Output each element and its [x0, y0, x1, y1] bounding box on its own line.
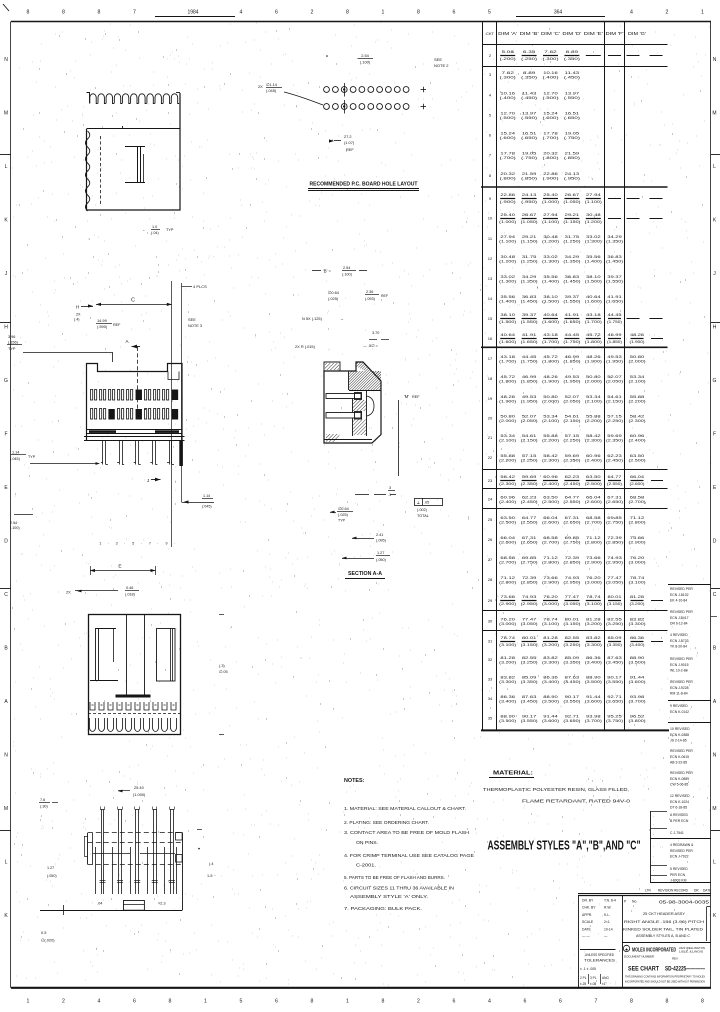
svg-text:(1.450): (1.450): [521, 300, 538, 304]
svg-text:(2.600): (2.600): [499, 541, 516, 545]
svg-text:(1.000): (1.000): [133, 792, 146, 797]
svg-text:63.50: 63.50: [630, 454, 645, 458]
svg-text:6: 6: [275, 999, 278, 1005]
svg-text:A REVISED: A REVISED: [670, 813, 688, 817]
svg-text:DIM 'F': DIM 'F': [606, 31, 624, 36]
svg-text:29.21: 29.21: [522, 235, 537, 239]
svg-text:86.36: 86.36: [543, 676, 558, 680]
hole span dimension: [329, 139, 334, 142]
svg-text:3: 3: [116, 542, 118, 546]
svg-text:4 REDRAWN &: 4 REDRAWN &: [670, 843, 694, 847]
svg-text:(.800): (.800): [543, 156, 559, 160]
svg-text:69.85: 69.85: [565, 536, 580, 540]
svg-text:12: 12: [488, 256, 493, 261]
svg-text:(1.850): (1.850): [607, 340, 622, 344]
svg-text:DIM 'E': DIM 'E': [584, 31, 603, 36]
svg-text:±.08: ±.08: [590, 982, 596, 986]
top view body band: [88, 832, 182, 834]
svg-text:(3.450): (3.450): [563, 680, 580, 684]
svg-text:(2.500): (2.500): [585, 482, 602, 486]
svg-text:(1.800): (1.800): [499, 380, 516, 384]
svg-text:(2.050): (2.050): [521, 419, 538, 423]
svg-text:(1.350): (1.350): [606, 240, 623, 244]
svg-text:(1.300): (1.300): [585, 240, 602, 244]
svg-text:(1.900): (1.900): [499, 400, 516, 404]
svg-text:N 5X (.125): N 5X (.125): [302, 316, 323, 321]
svg-text:78.74: 78.74: [630, 576, 645, 580]
svg-text:14: 14: [488, 296, 493, 301]
svg-text:68.58: 68.58: [500, 556, 515, 560]
svg-text:86.36: 86.36: [586, 656, 601, 660]
top view polarizing rib: [124, 901, 145, 911]
svg-text:21.59: 21.59: [565, 152, 580, 156]
svg-text:1.14: 1.14: [203, 494, 210, 498]
svg-text:INCORPORATED AND SHOULD NOT BE: INCORPORATED AND SHOULD NOT BE USED WITH…: [625, 980, 705, 984]
svg-text:58.42: 58.42: [500, 475, 515, 479]
svg-text:(.600): (.600): [543, 116, 559, 120]
svg-text:16.51: 16.51: [522, 132, 537, 136]
svg-text:(1.000): (1.000): [542, 200, 559, 204]
svg-text:38.10: 38.10: [543, 295, 558, 299]
svg-text:(2.450): (2.450): [563, 482, 580, 486]
rear view tail row 2: [89, 718, 176, 732]
svg-text:55.88: 55.88: [630, 395, 645, 399]
svg-text:TYP: TYP: [338, 519, 346, 523]
svg-text:(2.250): (2.250): [521, 459, 538, 463]
svg-text:73.66: 73.66: [586, 556, 601, 560]
svg-text:20.32: 20.32: [543, 152, 558, 156]
svg-text:(1.800): (1.800): [542, 360, 559, 364]
dim J arrow: [155, 478, 161, 482]
svg-text:(.300): (.300): [500, 76, 516, 80]
svg-text:26: 26: [488, 537, 493, 542]
svg-text:88.90: 88.90: [500, 715, 515, 719]
svg-text:ECN J-8417: ECN J-8417: [670, 616, 689, 620]
svg-text:(2.750): (2.750): [521, 561, 538, 565]
svg-text:THERMOPLASTIC POLYESTER RESIN,: THERMOPLASTIC POLYESTER RESIN, GLASS FIL…: [483, 787, 629, 792]
section hatch lower: [352, 420, 366, 436]
svg-text:30.48: 30.48: [543, 235, 558, 239]
svg-text:87.63: 87.63: [565, 676, 580, 680]
svg-text:(.350): (.350): [564, 57, 580, 61]
svg-text:·: ·: [653, 878, 654, 882]
svg-text:1: 1: [382, 10, 385, 16]
svg-text:(.100): (.100): [360, 60, 371, 65]
svg-text:(2.950): (2.950): [521, 602, 538, 606]
svg-text:ASSEMBLY STYLE 'A' ONLY.: ASSEMBLY STYLE 'A' ONLY.: [350, 894, 428, 899]
svg-text:87.63: 87.63: [522, 695, 537, 699]
svg-text:6: 6: [559, 999, 562, 1005]
svg-text:35.56: 35.56: [543, 275, 558, 279]
svg-text:3: 3: [389, 486, 391, 490]
svg-text:62.23: 62.23: [565, 475, 580, 479]
svg-text:(1.050): (1.050): [521, 220, 538, 224]
svg-text:(2.850): (2.850): [563, 561, 580, 565]
svg-text:(.450): (.450): [521, 96, 537, 100]
hole row end ticks: [421, 89, 427, 91]
svg-text:±.25: ±.25: [580, 982, 586, 986]
svg-text:5: 5: [488, 10, 491, 16]
top view right marks: [197, 829, 202, 831]
svg-text:(3.300): (3.300): [542, 661, 559, 665]
svg-text:DATE: DATE: [582, 927, 592, 931]
svg-text:(1.350): (1.350): [563, 260, 580, 264]
svg-text:36.83: 36.83: [565, 275, 580, 279]
svg-text:NOTE 3: NOTE 3: [188, 323, 202, 328]
svg-text:49.53: 49.53: [607, 355, 622, 359]
svg-text:44.45: 44.45: [565, 333, 580, 337]
svg-text:73.66: 73.66: [500, 595, 515, 599]
svg-text:67.31: 67.31: [522, 536, 537, 540]
svg-text:57.15: 57.15: [522, 454, 537, 458]
svg-text:60.96: 60.96: [630, 434, 645, 438]
svg-text:(.950): (.950): [521, 200, 537, 204]
svg-text:68.58: 68.58: [543, 536, 558, 540]
svg-text:(2.150): (2.150): [563, 419, 580, 423]
svg-text:(.025): (.025): [338, 513, 349, 517]
svg-text:90.17: 90.17: [607, 676, 622, 680]
sheet border frame: [11, 21, 711, 23]
svg-text:(3.050): (3.050): [521, 622, 538, 626]
svg-text:L: L: [713, 164, 716, 170]
svg-text:(.550): (.550): [564, 96, 580, 100]
rear view body: [89, 615, 181, 735]
svg-text:2X: 2X: [66, 590, 71, 595]
svg-text:(2.250): (2.250): [563, 439, 580, 443]
svg-text:AB 3-22-85: AB 3-22-85: [670, 760, 687, 764]
top view pin base ticks: [100, 880, 106, 882]
svg-text:17.78: 17.78: [543, 132, 558, 136]
svg-text:(3.100): (3.100): [585, 602, 602, 606]
svg-text:D: D: [4, 539, 8, 545]
svg-text:71.12: 71.12: [586, 536, 601, 540]
svg-text:(.3): (.3): [219, 664, 225, 668]
svg-text:(1.400): (1.400): [585, 260, 602, 264]
svg-text:M: M: [712, 111, 716, 117]
svg-text:G: G: [713, 378, 717, 384]
svg-text:(2.600): (2.600): [585, 500, 602, 504]
svg-text:(.200): (.200): [500, 57, 516, 61]
svg-text:1: 1: [701, 10, 704, 16]
svg-text:5 REVISED: 5 REVISED: [670, 867, 688, 871]
svg-text:34.29: 34.29: [607, 235, 622, 239]
svg-text:(3.700): (3.700): [629, 700, 646, 704]
svg-text:(1.500): (1.500): [585, 280, 602, 284]
svg-text:(2.800): (2.800): [585, 541, 602, 545]
svg-text:SD-42225————: SD-42225————: [665, 967, 705, 973]
svg-text:27.2: 27.2: [344, 134, 352, 139]
svg-text:(1.350): (1.350): [521, 280, 538, 284]
svg-text:25 CKT HEADER ASSY: 25 CKT HEADER ASSY: [643, 911, 685, 916]
svg-text:(1.650): (1.650): [521, 340, 538, 344]
svg-text:SCALE: SCALE: [582, 920, 594, 924]
svg-text:(.30): (.30): [40, 805, 49, 809]
svg-text:48.26: 48.26: [543, 375, 558, 379]
svg-text:8: 8: [311, 999, 314, 1005]
svg-text:(1.650): (1.650): [606, 300, 623, 304]
svg-text:6: 6: [275, 10, 278, 16]
svg-text:7. PACKAGING: BULK PACK.: 7. PACKAGING: BULK PACK.: [344, 906, 422, 911]
svg-text:7.6: 7.6: [40, 798, 45, 802]
svg-text:(1.400): (1.400): [542, 280, 559, 284]
svg-text:85.09: 85.09: [608, 636, 622, 640]
svg-text:4: 4: [488, 999, 491, 1005]
svg-text:91.44: 91.44: [630, 676, 645, 680]
svg-text:05-98-3004-0035: 05-98-3004-0035: [659, 900, 710, 905]
svg-text:96.52: 96.52: [630, 715, 645, 719]
svg-text:E: E: [118, 564, 121, 570]
svg-text:(3.000): (3.000): [629, 561, 646, 565]
svg-text:(.550): (.550): [521, 116, 537, 120]
svg-text:ECN J-9228: ECN J-9228: [670, 686, 689, 690]
svg-text:— —: — —: [582, 935, 590, 939]
svg-text:10: 10: [488, 216, 493, 221]
svg-text:(1.600): (1.600): [499, 340, 516, 344]
svg-text:REVISED PER: REVISED PER: [670, 657, 693, 661]
svg-text:·: ·: [108, 542, 109, 546]
svg-text:.05: .05: [424, 501, 429, 505]
front view right base tab: [155, 430, 179, 433]
svg-text:L: L: [5, 860, 8, 866]
svg-text:1: 1: [346, 999, 349, 1005]
svg-text:0.46: 0.46: [126, 586, 133, 590]
svg-text:DIM 'D': DIM 'D': [562, 31, 581, 36]
svg-text:8: 8: [630, 999, 633, 1005]
svg-text:NOTES:: NOTES:: [344, 778, 365, 784]
svg-text:60.96: 60.96: [500, 496, 515, 500]
svg-text:77.47: 77.47: [522, 618, 537, 622]
section tolerance frame: [415, 499, 443, 506]
svg-text:12.70: 12.70: [500, 112, 515, 116]
svg-text:·: ·: [653, 833, 654, 837]
svg-text:8: 8: [346, 10, 349, 16]
svg-text:(3.600): (3.600): [629, 680, 646, 684]
svg-text:59.69: 59.69: [565, 454, 580, 458]
svg-text:·: ·: [653, 823, 654, 827]
svg-text:58.42: 58.42: [586, 434, 601, 438]
svg-text:69.85: 69.85: [607, 516, 622, 520]
svg-text:L: L: [713, 860, 716, 866]
svg-text:(2.950): (2.950): [606, 561, 623, 565]
svg-text:74.93: 74.93: [565, 576, 580, 580]
svg-text:·: ·: [174, 542, 175, 546]
rear view dim E: [90, 570, 156, 572]
svg-text:(2.150): (2.150): [606, 400, 623, 404]
svg-text:(2.700): (2.700): [542, 541, 559, 545]
svg-text:(3.000): (3.000): [585, 581, 602, 585]
svg-text:48.26: 48.26: [630, 333, 644, 337]
svg-text:CKT: CKT: [486, 31, 495, 36]
top view pitch dim: [118, 790, 123, 793]
svg-text:(.600): (.600): [500, 136, 516, 140]
svg-text:⟂: ⟂: [417, 500, 420, 505]
svg-text:62.23: 62.23: [607, 454, 622, 458]
svg-text:(2.550): (2.550): [563, 500, 580, 504]
svg-text:REVISION RECORD: REVISION RECORD: [658, 889, 689, 893]
svg-text:26.67: 26.67: [522, 213, 537, 217]
svg-text:(1.200): (1.200): [585, 220, 602, 224]
svg-text:78.74: 78.74: [543, 618, 558, 622]
svg-text:(.700): (.700): [500, 156, 516, 160]
svg-text:72.39: 72.39: [607, 536, 622, 540]
svg-text:82.55: 82.55: [565, 636, 580, 640]
svg-text:25.40: 25.40: [500, 213, 515, 217]
svg-text:(.650): (.650): [521, 136, 537, 140]
svg-text:40.64: 40.64: [543, 313, 558, 317]
svg-text:(1.650): (1.650): [563, 320, 580, 324]
dim M ref: [398, 400, 400, 476]
revision column rule 1: [668, 584, 711, 586]
svg-text:DIM 'B': DIM 'B': [520, 31, 539, 36]
svg-text:ON PINS.: ON PINS.: [356, 840, 378, 845]
svg-text:(1.07): (1.07): [344, 140, 355, 145]
svg-text:66.04: 66.04: [586, 496, 601, 500]
svg-text:(2.300): (2.300): [629, 419, 646, 423]
svg-text:72.39: 72.39: [522, 576, 537, 580]
svg-text:D: D: [713, 539, 717, 545]
svg-text:PER ECN: PER ECN: [670, 873, 686, 877]
svg-text:(2.100): (2.100): [542, 419, 559, 423]
svg-text:(3.550): (3.550): [563, 700, 580, 704]
svg-text:(1.950): (1.950): [521, 400, 538, 404]
svg-text:66.04: 66.04: [500, 536, 515, 540]
svg-text:4. FOR CRIMP TERMINAL USE SEE: 4. FOR CRIMP TERMINAL USE SEE CATALOG PA…: [344, 853, 474, 858]
svg-text:22.86: 22.86: [543, 172, 558, 176]
svg-text:(1.950): (1.950): [563, 380, 580, 384]
svg-text:41.91: 41.91: [565, 313, 580, 317]
svg-text:(.050): (.050): [376, 558, 387, 562]
svg-text:DT 6-18-85: DT 6-18-85: [670, 805, 687, 809]
svg-text:(1.550): (1.550): [563, 300, 580, 304]
svg-text:11.43: 11.43: [522, 92, 537, 96]
svg-text:C: C: [131, 298, 135, 304]
svg-text:(.045): (.045): [202, 505, 212, 509]
side view terminal slot: [125, 146, 145, 148]
svg-text:(1.300): (1.300): [499, 280, 516, 284]
svg-text:C-2001.: C-2001.: [356, 863, 376, 868]
svg-text:39.37: 39.37: [607, 275, 622, 279]
svg-text:FLAME RETARDANT, RATED 94V-0: FLAME RETARDANT, RATED 94V-0: [522, 799, 631, 804]
svg-text:80.01: 80.01: [522, 636, 537, 640]
svg-text:91.44: 91.44: [586, 695, 601, 699]
section lower dim: [352, 537, 357, 540]
svg-text:5: 5: [240, 999, 243, 1005]
svg-text:(3.400): (3.400): [542, 680, 559, 684]
rear view right slot: [157, 629, 176, 682]
svg-text:(.100): (.100): [10, 526, 20, 530]
svg-text:ECN K-0388: ECN K-0388: [670, 733, 689, 737]
svg-text:45.72: 45.72: [543, 355, 558, 359]
rear view center column: [126, 615, 128, 695]
svg-text:(.093): (.093): [365, 297, 376, 301]
rear view right callout: [219, 614, 224, 616]
svg-text:(3.400): (3.400): [499, 700, 516, 704]
svg-text:T.N. 8-4: T.N. 8-4: [604, 899, 616, 903]
svg-text:66.04: 66.04: [630, 475, 644, 479]
svg-text:80.01: 80.01: [565, 618, 580, 622]
svg-text:MATERIAL:: MATERIAL:: [493, 771, 533, 777]
svg-text:81.28: 81.28: [543, 636, 558, 640]
svg-text:64.77: 64.77: [608, 475, 622, 479]
svg-text:ASSEMBLY STYLES "A","B",AND: ASSEMBLY STYLES "A","B",AND "C": [488, 839, 641, 853]
svg-text:53.34: 53.34: [630, 375, 645, 379]
svg-text:7.62: 7.62: [544, 50, 556, 54]
svg-text:(2.400): (2.400): [629, 439, 646, 443]
svg-text:ECN K-0142: ECN K-0142: [670, 710, 689, 714]
svg-text:(3.550): (3.550): [606, 680, 623, 684]
svg-text:27.94: 27.94: [543, 213, 558, 217]
svg-text:RM 11-8-84: RM 11-8-84: [670, 691, 688, 695]
svg-text:(1.750): (1.750): [563, 340, 580, 344]
svg-text:1.27: 1.27: [47, 866, 54, 870]
top view left bracket: [84, 836, 88, 838]
svg-text:'M': 'M': [404, 394, 409, 399]
svg-text:24: 24: [488, 497, 493, 502]
svg-text:(2.500): (2.500): [499, 521, 516, 525]
svg-text:34: 34: [488, 696, 493, 701]
svg-text:ECN J-7922: ECN J-7922: [670, 854, 689, 858]
svg-text:(3.300): (3.300): [499, 680, 516, 684]
svg-text:F: F: [713, 432, 716, 438]
svg-text:55.88: 55.88: [586, 415, 601, 419]
svg-text:(.700): (.700): [543, 136, 559, 140]
svg-text:(1.450): (1.450): [563, 280, 580, 284]
svg-text:(2.200): (2.200): [629, 400, 646, 404]
svg-text:(3.600): (3.600): [542, 719, 559, 723]
svg-text:35.56: 35.56: [586, 255, 601, 259]
front view base lines: [87, 429, 183, 431]
svg-text:2: 2: [666, 10, 669, 16]
svg-text:76.20: 76.20: [586, 576, 601, 580]
title block company rule: [622, 942, 711, 944]
svg-text:M: M: [4, 806, 8, 812]
svg-text:(2.000): (2.000): [499, 419, 516, 423]
svg-text:19.05: 19.05: [522, 152, 537, 156]
section bottom rim: [324, 439, 372, 441]
svg-text:8: 8: [62, 10, 65, 16]
svg-text:CHK. BY: CHK. BY: [582, 906, 596, 910]
svg-text:33: 33: [488, 677, 493, 682]
svg-text:41.91: 41.91: [522, 333, 537, 337]
svg-text:(.100): (.100): [342, 273, 353, 277]
corner mark: [3, 4, 9, 11]
svg-text:F: F: [4, 432, 7, 438]
svg-text:1.0: 1.0: [152, 225, 157, 229]
svg-text:74.93: 74.93: [522, 595, 537, 599]
svg-text:24.13: 24.13: [522, 193, 537, 197]
svg-text:M: M: [4, 111, 8, 117]
svg-text:(3.500): (3.500): [542, 700, 559, 704]
svg-text:N: N: [4, 753, 8, 759]
section cut line A-A: [137, 347, 139, 410]
svg-text:2.41: 2.41: [376, 533, 383, 537]
svg-text:68.58: 68.58: [630, 496, 645, 500]
svg-text:TYP: TYP: [8, 347, 16, 351]
svg-text:DR 6-12-84: DR 6-12-84: [670, 621, 688, 625]
svg-text:14.99: 14.99: [97, 318, 107, 323]
dimension table horizontal rules: [483, 44, 668, 46]
svg-text:(2.050): (2.050): [606, 380, 623, 384]
svg-text:8.89: 8.89: [566, 50, 578, 54]
svg-text:(.095): (.095): [376, 539, 387, 543]
svg-text:81.28: 81.28: [500, 656, 515, 660]
svg-text:(1.600): (1.600): [542, 320, 559, 324]
svg-text:(3.300): (3.300): [585, 643, 602, 647]
svg-text:(.500): (.500): [543, 96, 559, 100]
svg-text:6. CIRCUIT SIZES 11 THRU 36 AV: 6. CIRCUIT SIZES 11 THRU 36 AVAILABLE IN: [344, 886, 454, 891]
svg-text:DIM 'C': DIM 'C': [541, 31, 560, 36]
svg-text:46.99: 46.99: [608, 333, 622, 337]
